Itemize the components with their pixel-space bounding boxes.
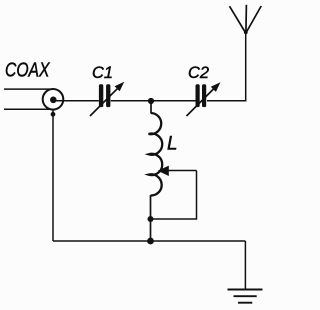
wire coil bottom to bottom rail [150, 195, 152, 241]
wire coax bottom lead [4, 108, 51, 110]
wire C1 to C2 [111, 100, 196, 102]
wire C2 to antenna corner [207, 33, 246, 101]
coax connector J1 [43, 89, 64, 110]
wire coax top lead [4, 88, 51, 90]
wire junction to coil [150, 101, 152, 114]
ground [228, 290, 263, 303]
svg-text:C1: C1 [92, 63, 113, 82]
wire right vertical to ground [244, 241, 246, 290]
capacitor C1 (variable) [90, 82, 124, 116]
inductor L [149, 113, 163, 196]
wire coax to C1 [53, 100, 99, 102]
capacitor C2 (variable) [187, 82, 221, 116]
svg-text:C2: C2 [188, 63, 210, 82]
node bottom junction [147, 238, 154, 245]
wire bottom rail [53, 240, 245, 242]
wire left vertical (coax shield down) [52, 110, 54, 241]
wire tap loop [151, 171, 197, 220]
node tap junction [148, 216, 154, 222]
antenna [230, 5, 262, 34]
svg-text:L: L [167, 133, 178, 154]
svg-text:COAX: COAX [5, 60, 50, 82]
tap arrow [158, 166, 197, 176]
node coax shield junction [51, 112, 56, 117]
node junction top [148, 98, 154, 104]
